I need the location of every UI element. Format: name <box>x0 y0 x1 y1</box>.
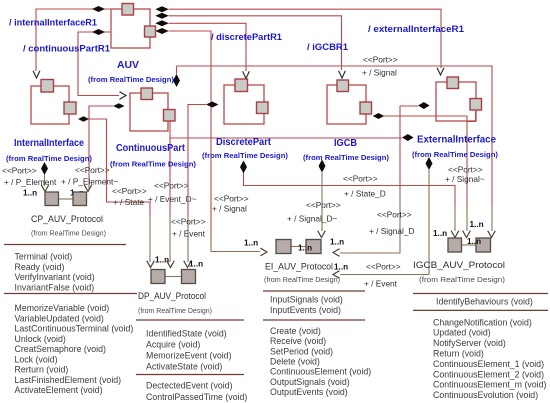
svg-text:OutputSignals (void): OutputSignals (void) <box>270 377 350 387</box>
composition diamond below InternalInterface <box>41 162 48 175</box>
composition diamond on internalInterfaceR1 at AUV end <box>92 6 105 12</box>
svg-text:(from RealTime Design): (from RealTime Design) <box>6 154 92 163</box>
composition diamond at ExternalInterface left edge <box>400 105 418 107</box>
arrowhead into IGCB_AUV_Protocol port 2 <box>463 231 471 238</box>
svg-text:1..n: 1..n <box>330 238 344 247</box>
svg-text:+ / P_Element~: + / P_Element~ <box>61 177 118 187</box>
svg-text:ContinuousPart: ContinuousPart <box>116 143 186 154</box>
separator line CP_AUV_Protocol 1 <box>4 244 126 246</box>
svg-text:DP_AUV_Protocol: DP_AUV_Protocol <box>138 290 206 301</box>
svg-text:SetPeriod (void): SetPeriod (void) <box>270 346 333 356</box>
svg-text:ContinuousElement_1 (void): ContinuousElement_1 (void) <box>433 359 544 369</box>
svg-text:InternalInterface: InternalInterface <box>14 138 84 149</box>
svg-text:+ / State_D: + / State_D <box>344 189 386 199</box>
class IGCB box <box>327 85 366 124</box>
composition diamond below IGCB <box>319 160 326 173</box>
wire from AUV right port down to EI_AUV_Protocol left port <box>169 31 211 240</box>
svg-text:(from RealTime Design): (from RealTime Design) <box>88 75 174 84</box>
svg-text:+ / Signal_D~: + / Signal_D~ <box>287 214 337 224</box>
svg-text:<<Port>>: <<Port>> <box>75 165 110 175</box>
svg-text:1..n: 1..n <box>189 260 203 269</box>
svg-text:1..n: 1..n <box>298 244 312 253</box>
arrowhead into DP_AUV_Protocol port 1 <box>147 261 155 268</box>
separator line IGCB_AUV_Protocol 2 <box>413 309 548 311</box>
arrowhead into CP_AUV_Protocol port 1 <box>41 185 49 192</box>
DP_AUV_Protocol port pair <box>165 276 182 278</box>
svg-text:(from RealTime Design): (from RealTime Design) <box>303 153 389 162</box>
wire from DiscretePart left diamond down to DP_AUV_Protocol port 2 <box>188 105 206 216</box>
svg-text:InputSignals (void): InputSignals (void) <box>270 295 343 305</box>
svg-text:+ / Signal_D: + / Signal_D <box>369 226 414 236</box>
ExternalInterface right port <box>470 99 482 111</box>
composition diamond below DiscretePart <box>240 161 247 174</box>
arrowhead into CP_AUV_Protocol port 2 <box>84 185 92 192</box>
class InternalInterface box <box>31 86 69 124</box>
svg-text:ContinuousElement_m (void): ContinuousElement_m (void) <box>433 380 547 390</box>
svg-text:InvariantFalse (void): InvariantFalse (void) <box>15 282 95 292</box>
wire from ContinuousPart right port down to DP_AUV_Protocol port 1 area <box>169 121 171 216</box>
wire from ExternalInterface bottom diamond down to EI_AUV_Protocol (Event) <box>340 170 429 275</box>
svg-text:+ / Signal: + / Signal <box>362 68 397 78</box>
arrowhead into EI_AUV_Protocol port 2 right side <box>333 249 340 257</box>
svg-text:<<Port>>: <<Port>> <box>366 262 401 272</box>
svg-text:Rerturn (void): Rerturn (void) <box>15 365 69 375</box>
DiscretePart right port <box>257 102 269 114</box>
svg-text:IGCB: IGCB <box>334 138 357 149</box>
svg-text:/ externalInterfaceR1: / externalInterfaceR1 <box>368 23 464 34</box>
ContinuousPart right port <box>164 110 176 122</box>
svg-text:(from RealTime Design): (from RealTime Design) <box>110 160 196 169</box>
svg-text:DectectedEvent (void): DectectedEvent (void) <box>146 381 233 391</box>
svg-text:ActivateState (void): ActivateState (void) <box>146 362 222 372</box>
svg-text:(from RealTime Design): (from RealTime Design) <box>202 151 288 160</box>
svg-text:/ internalInterfaceR1: / internalInterfaceR1 <box>9 17 97 28</box>
separator line EI_AUV_Protocol 2 <box>263 319 365 321</box>
wire from DiscretePart bottom diamond across y=185 down to IGCB_AUV_Protocol port 1 <box>244 173 456 205</box>
svg-text:Terminal (void): Terminal (void) <box>15 252 73 262</box>
InternalInterface right port <box>64 102 76 114</box>
svg-text:+ / P_Element: + / P_Element <box>4 177 57 187</box>
svg-text:ControlPassedTime (void): ControlPassedTime (void) <box>146 392 247 402</box>
svg-text:IdentifiedState (void): IdentifiedState (void) <box>146 329 227 339</box>
class DiscretePart box <box>224 85 264 124</box>
svg-text:OutputEvents (void): OutputEvents (void) <box>270 387 348 397</box>
svg-text:+ / Event_D~: + / Event_D~ <box>148 194 197 204</box>
svg-text:1..n: 1..n <box>433 229 447 238</box>
svg-text:Updated (void): Updated (void) <box>433 328 491 338</box>
svg-text:<<Port>>: <<Port>> <box>2 166 37 176</box>
svg-text:(from RealTime Design): (from RealTime Design) <box>138 308 212 315</box>
wire from InternalInterface right port diamond down/right to DP_AUV_Protocol port 1 <box>89 119 150 215</box>
svg-text:+ / Signal~: + / Signal~ <box>445 174 485 184</box>
svg-text:EI_AUV_Protocol: EI_AUV_Protocol <box>265 261 333 272</box>
svg-text:VariableUpdated (void): VariableUpdated (void) <box>15 313 104 323</box>
arrowhead into IGCB_AUV_Protocol port 2 <box>488 231 496 238</box>
AUV top port <box>122 4 134 16</box>
composition diamond D1 at AUV right edge <box>155 6 169 12</box>
class AUV structure box <box>111 9 150 48</box>
svg-text:Acquire (void): Acquire (void) <box>146 340 200 350</box>
svg-text:ChangeNotification (void): ChangeNotification (void) <box>433 317 532 327</box>
svg-text:LastFinishedElement (void): LastFinishedElement (void) <box>15 375 122 385</box>
svg-text:<<Port>>: <<Port>> <box>306 200 341 210</box>
svg-text:DiscretePart: DiscretePart <box>216 137 272 148</box>
wire iGCBR1 from AUV right to IGCB top port <box>169 16 342 70</box>
svg-text:<<Port>>: <<Port>> <box>448 165 483 175</box>
svg-text:ActivateElement (void): ActivateElement (void) <box>15 385 103 395</box>
composition diamond at IGCB right port <box>373 113 385 119</box>
svg-text:Lock (void): Lock (void) <box>15 354 58 364</box>
svg-text:VerifyInvariant (void): VerifyInvariant (void) <box>15 272 95 282</box>
EI_AUV_Protocol port pair <box>291 246 306 248</box>
svg-text:(from RealTime Design): (from RealTime Design) <box>31 231 106 238</box>
arrowhead into EI_AUV_Protocol port 1 <box>261 248 268 256</box>
class ExternalInterface box <box>436 82 476 121</box>
arrowhead into DP_AUV_Protocol port 2 <box>184 261 192 268</box>
svg-text:+ / Event: + / Event <box>172 229 206 239</box>
svg-text:Delete (void): Delete (void) <box>270 356 320 366</box>
svg-text:LastContinuousTerminal (void): LastContinuousTerminal (void) <box>15 324 134 334</box>
composition diamond pointing at ExternalInterface label <box>402 134 414 141</box>
separator line IGCB_AUV_Protocol 1 <box>413 293 548 295</box>
separator line DP_AUV_Protocol 1 <box>136 319 244 321</box>
composition diamond D4 at AUV right port <box>155 28 169 34</box>
svg-text:Return (void): Return (void) <box>433 349 484 359</box>
svg-text:<<Port>>: <<Port>> <box>171 217 206 227</box>
arrowhead into EI_AUV_Protocol port 2 top <box>318 231 326 238</box>
composition diamond D2 at AUV right edge <box>155 13 169 19</box>
arrowhead into IGCB_AUV_Protocol port 1 <box>451 231 459 238</box>
svg-text:CP_AUV_Protocol: CP_AUV_Protocol <box>31 213 103 224</box>
svg-text:CreatSemaphore (void): CreatSemaphore (void) <box>15 344 107 354</box>
wire / internalInterfaceR1 connector from AUV left edge down to InternalInterface top port <box>36 9 111 71</box>
arrowhead into ExternalInterface top port <box>437 68 444 75</box>
composition diamond at DiscretePart left edge <box>206 102 219 108</box>
separator line CP_AUV_Protocol 2 <box>4 293 137 295</box>
CP_AUV_Protocol port pair <box>59 198 74 200</box>
svg-text:1..n: 1..n <box>155 256 169 265</box>
IGCB top port <box>337 80 349 92</box>
svg-text:+ / Event: + / Event <box>364 279 398 289</box>
ContinuousPart top port <box>141 88 153 100</box>
wire externalInterfaceR1 from AUV right to ExternalInterface top port <box>169 9 441 68</box>
wire discretePartR1 from AUV right to DiscretePart top port <box>169 23 246 71</box>
svg-text:+ / State: + / State <box>113 197 145 207</box>
composition diamond D3 at AUV right edge <box>155 20 169 26</box>
svg-text:<<Port>>: <<Port>> <box>112 186 147 196</box>
svg-text:IGCB_AUV_Protocol: IGCB_AUV_Protocol <box>413 259 505 270</box>
InternalInterface top port <box>41 80 54 93</box>
wire from stub diamond across top (y=66) down to IGCB_AUV_Protocol port 2 <box>177 66 493 205</box>
svg-text:Create (void): Create (void) <box>270 326 321 336</box>
svg-text:<<Port>>: <<Port>> <box>154 181 189 191</box>
svg-text:<<Port>>: <<Port>> <box>343 174 378 184</box>
svg-text:/ continuousPartR1: / continuousPartR1 <box>23 43 110 54</box>
svg-text:MemorizeEvent (void): MemorizeEvent (void) <box>146 351 232 361</box>
separator line EI_AUV_Protocol 1 <box>263 290 365 292</box>
svg-text:ContinuousElement (void): ContinuousElement (void) <box>270 367 371 377</box>
IGCB_AUV_Protocol port pair <box>462 244 477 246</box>
separator line DP_AUV_Protocol 2 <box>136 374 244 376</box>
svg-text:(from RealTime Design): (from RealTime Design) <box>412 150 498 159</box>
composition diamond at ContinuousPart left edge <box>113 103 125 109</box>
ExternalInterface top port <box>447 77 459 89</box>
wire vertical x=400 from ExternalInterface left diamond down to EI_AUV_Protocol port 2 <box>399 106 401 190</box>
composition diamond at InternalInterface right port <box>78 116 89 122</box>
svg-text:1..n: 1..n <box>470 220 484 229</box>
svg-text:/ iGCBR1: / iGCBR1 <box>307 41 348 52</box>
svg-text:1..n: 1..n <box>244 239 258 248</box>
wire from ExternalInterface right port down to IGCB_AUV_Protocol via x=466 <box>467 110 476 122</box>
svg-text:+ / Signal: + / Signal <box>212 204 247 214</box>
svg-text:Ready (void): Ready (void) <box>15 262 65 272</box>
svg-text:<<Port>>: <<Port>> <box>214 194 249 204</box>
arrowhead into ContinuousPart left edge <box>120 92 127 100</box>
svg-text:1..n: 1..n <box>334 263 348 272</box>
class ContinuousPart box <box>130 93 168 131</box>
DiscretePart top port <box>235 79 248 92</box>
svg-text:NotifyServer (void): NotifyServer (void) <box>433 338 506 348</box>
wire from IGCB right port diamond across (y=116) down to IGCB_AUV_Protocol port 2 left <box>384 116 467 205</box>
wire from IGCB bottom diamond down to EI_AUV_Protocol port 2 top <box>321 173 323 232</box>
wire from ContinuousPart right port across (y=138) to ExternalInterface label diamond <box>170 137 402 139</box>
composition diamond below ExternalInterface <box>426 157 433 170</box>
stub with composition diamond below AUV area <box>176 66 178 74</box>
svg-text:AUV: AUV <box>117 59 139 71</box>
svg-text:IdentifyBehaviours (void): IdentifyBehaviours (void) <box>436 297 533 307</box>
svg-text:<<Port>>: <<Port>> <box>377 210 412 220</box>
wire / continuousPartR1 connector from AUV left edge down to ContinuousPart left edge <box>78 32 119 96</box>
arrowhead into EI_AUV_Protocol right side (Event) <box>333 271 340 279</box>
svg-text:Receive (void): Receive (void) <box>270 336 326 346</box>
svg-text:ContinuousElement_2 (void): ContinuousElement_2 (void) <box>433 369 544 379</box>
AUV right port <box>145 26 156 37</box>
arrowhead into InternalInterface top port <box>33 71 40 78</box>
composition diamond on continuousPartR1 at AUV end <box>92 29 105 35</box>
wire from ContinuousPart left diamond down to CP_AUV_Protocol port 2 <box>89 106 113 180</box>
svg-text:ExternalInterface: ExternalInterface <box>417 135 497 146</box>
IGCB right port <box>360 102 372 114</box>
svg-text:(from RealTime Design): (from RealTime Design) <box>419 277 505 284</box>
svg-text:1..n: 1..n <box>23 189 37 198</box>
svg-text:InputEvents (void): InputEvents (void) <box>270 305 341 315</box>
svg-text:(from RealTime Design): (from RealTime Design) <box>264 277 340 284</box>
svg-text:1..n: 1..n <box>467 237 481 246</box>
svg-text:MemorizeVariable (void): MemorizeVariable (void) <box>15 303 110 313</box>
arrowhead into DiscretePart top port <box>243 71 250 78</box>
arrowhead into DP_AUV_Protocol <box>167 261 175 268</box>
svg-text:ContinuousEvolution (void): ContinuousEvolution (void) <box>433 390 538 400</box>
svg-text:/ discretePartR1: / discretePartR1 <box>211 31 282 42</box>
arrowhead into IGCB top port <box>339 71 346 78</box>
svg-text:<<Port>>: <<Port>> <box>363 55 398 65</box>
svg-text:Unlock (void): Unlock (void) <box>15 334 66 344</box>
wire from InternalInterface bottom diamond down to CP_AUV_Protocol port 1 <box>44 175 46 186</box>
